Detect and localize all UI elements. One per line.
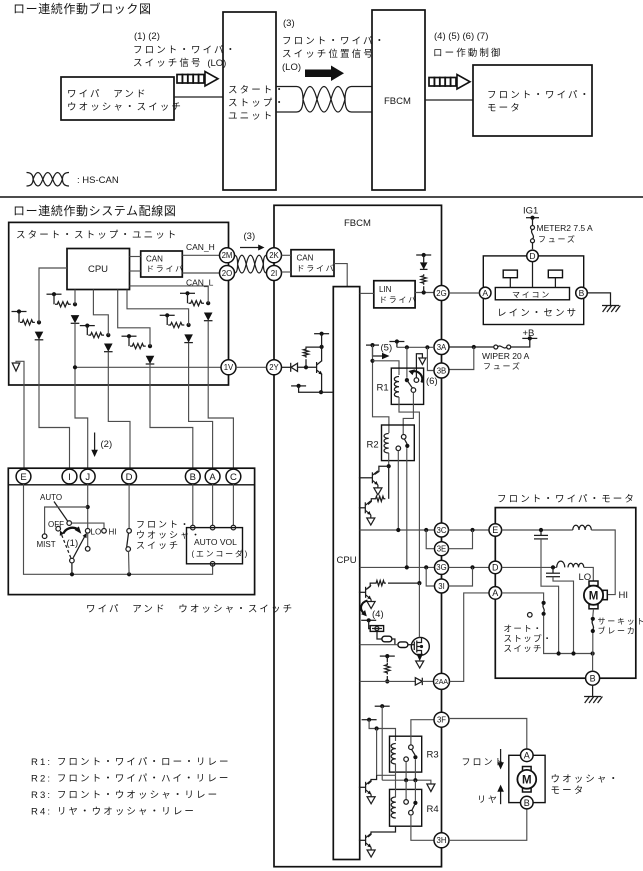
contact: OFF [56, 526, 61, 531]
connector B (motor) [586, 671, 600, 685]
label (4)(5)(6)(7) low operation control [433, 31, 503, 59]
connector 2O [220, 266, 235, 281]
connector 2K [267, 248, 282, 263]
relay R1 NO contact [411, 388, 416, 393]
motif B: resistor R-b, diode D-b (CPU pin to J) [47, 290, 80, 324]
svg-text:AUTO VOL: AUTO VOL [194, 537, 237, 547]
relay R1 fixed contact (to marker) [414, 378, 419, 383]
svg-text:CAN_H: CAN_H [186, 242, 215, 252]
CPU U1 (start-stop unit) [67, 249, 130, 290]
wire: 3F to washer A [449, 719, 527, 750]
digital signal arrow (4)-(7) [429, 75, 470, 90]
sensor element right [548, 270, 562, 287]
switch arm dashed (to OFF) with arrowhead [60, 531, 71, 558]
connector D (motor) [489, 561, 502, 574]
wire: A to auto-stop switch [502, 593, 544, 601]
contact: washer top [127, 529, 132, 534]
wire: R3 NC to rail [405, 762, 407, 781]
relay R2 NC contact [396, 446, 401, 451]
svg-text:HI: HI [619, 590, 629, 601]
svg-text:サーキット・: サーキット・ [598, 617, 643, 626]
svg-text:2Y: 2Y [269, 363, 279, 372]
svg-text:D: D [529, 251, 535, 261]
wire: 3H to washer B [449, 809, 527, 840]
wire: R4 coil riser inside [395, 775, 397, 797]
terminal: encoder C [231, 525, 236, 530]
svg-text:ロー作動制御: ロー作動制御 [433, 47, 503, 59]
contact: AUTO [67, 521, 72, 526]
relay R2 box [367, 425, 415, 461]
relay R3 contact: common [409, 745, 414, 750]
output marker (6) open triangle with stem [416, 354, 426, 378]
wire: auto-stop to motor common rail [544, 616, 595, 656]
wire: junction to R1 common [406, 347, 408, 378]
connector 3G [435, 560, 449, 574]
wire: motif C diode to connector D [108, 352, 130, 469]
block: wiper and washer switch [61, 77, 183, 120]
svg-text:CAN: CAN [146, 255, 163, 264]
power node IG1 [523, 206, 539, 220]
svg-text:D: D [126, 472, 133, 483]
digital signal arrow (1)(2) [177, 72, 218, 87]
box: FBCM [274, 205, 442, 866]
2Y input: base resistor R-y vertical [303, 345, 323, 368]
wire: R2 coil bottom to driver node [387, 453, 391, 468]
svg-text:(1): (1) [67, 538, 79, 549]
legend: HS-CAN twisted pair symbol [27, 173, 119, 187]
label: front washer switch [136, 520, 202, 551]
solid arrow (3) [305, 66, 344, 82]
svg-text:ロー連続作動システム配線図: ロー連続作動システム配線図 [13, 203, 176, 218]
svg-text:M: M [589, 591, 599, 603]
wire: CAN driver to CPU [334, 264, 347, 287]
R4 driver transistor Q6 [359, 826, 396, 857]
svg-text:I: I [68, 472, 71, 483]
relay R3 box [390, 736, 439, 772]
relay R2 coil [384, 434, 389, 454]
wire: 3G net jog to 3I [426, 567, 434, 586]
svg-text:2I: 2I [271, 269, 278, 278]
MOSFET Q4 (in circle) [408, 637, 429, 655]
wire: AUTO position lead [54, 502, 68, 522]
relay R3 NC contact [404, 757, 409, 762]
2Y input: diode D-y (points left) [282, 363, 317, 372]
buffer gate 2 [392, 639, 408, 648]
wire: 3C to motor E with 3E jog [449, 528, 489, 549]
wire: motif D diode to connector B [150, 364, 193, 469]
wire: J node to MIST contact [45, 507, 88, 534]
connector B (rain sensor) [576, 287, 588, 299]
diode D-aa (points right) [415, 678, 433, 685]
svg-text:: HS-CAN: : HS-CAN [77, 175, 119, 186]
svg-text:2M: 2M [222, 251, 233, 260]
connector 3F [434, 712, 449, 727]
svg-text:3B: 3B [437, 366, 447, 375]
wire: B riser to encoder [192, 484, 194, 526]
wire: rail to motor B [592, 654, 594, 672]
wire: E riser and switch common rail [24, 484, 213, 577]
svg-text:ウオッシャ・: ウオッシャ・ [136, 530, 202, 540]
capacitor C2 (D line) [546, 567, 574, 653]
connector 3B [434, 363, 449, 378]
connector 1V [221, 360, 236, 375]
svg-text:(2): (2) [101, 439, 113, 450]
wire: junction down to R4 coil riser [377, 729, 396, 776]
svg-text:AUTO: AUTO [40, 493, 62, 502]
svg-text:E: E [20, 472, 26, 483]
svg-text:2K: 2K [269, 251, 279, 260]
connector B (switch) [185, 469, 200, 484]
CAN driver IC (start-stop unit) [141, 251, 185, 277]
connector D (rain sensor) [527, 250, 539, 262]
relay R1 box [377, 368, 424, 404]
wire: FBCM to front wiper motor [425, 99, 473, 101]
svg-text:R1: R1 [377, 383, 389, 394]
net: 3C wire [360, 528, 435, 532]
motor M2 (washer) [517, 767, 536, 793]
connector E (motor) [489, 524, 502, 537]
connector 3A [434, 340, 449, 355]
supply stub 1 (R3/R4 area) [375, 705, 390, 707]
block: start-stop unit [223, 12, 286, 190]
net: 2AA wire from CPU [360, 680, 416, 682]
wire: R2 moving contact down to 3G net [406, 448, 408, 567]
svg-text:ウオッシャ・スイッチ: ウオッシャ・スイッチ [67, 102, 183, 113]
connector 2G [434, 286, 449, 301]
connector 2M [220, 248, 235, 263]
wire: A riser to encoder [212, 484, 214, 526]
connector 2I [267, 266, 282, 281]
svg-text:MIST: MIST [37, 540, 56, 549]
wire: stub2 to R3 coil riser [369, 720, 395, 741]
wire: motif B diode down to 1V node and connector J [75, 323, 88, 469]
connector 3H [434, 833, 449, 848]
terminal: encoder bottom [210, 562, 215, 567]
wire: C riser to encoder [232, 484, 234, 526]
wire: R4 lower contact to 3H [411, 815, 434, 840]
svg-text:レイン・センサ: レイン・センサ [497, 308, 578, 319]
svg-text:フューズ: フューズ [538, 234, 577, 244]
svg-text:B: B [524, 798, 530, 808]
CAN driver IC (FBCM) [291, 250, 335, 277]
wire: stub1 down to contact rail [381, 706, 383, 780]
supply stub for 3A wire [389, 339, 404, 347]
wire: CPU to MOSFET gate [360, 644, 398, 646]
svg-text:A: A [492, 588, 498, 598]
box: wiper and washer switch assembly [8, 468, 254, 594]
relay R4 moving contact dot (from rail) [413, 780, 417, 805]
svg-text:(3): (3) [283, 18, 295, 29]
power node +B [522, 328, 537, 341]
relay R4 coil [391, 797, 396, 818]
R3 driver transistor Q5 [359, 775, 377, 804]
svg-text:(3): (3) [244, 231, 256, 242]
relay R4 contact arm [412, 805, 415, 811]
wire: 3G to motor D with 3I jog [449, 565, 489, 586]
label: auto stop switch [504, 624, 553, 654]
wire: 1V to 2Y [236, 366, 267, 368]
ground: rain sensor B [587, 293, 620, 312]
wire: washer switch to rail [128, 551, 131, 574]
wire: 2K to CAN driver [282, 254, 292, 256]
svg-text:ドライバ: ドライバ [297, 264, 336, 273]
wire: junction to 3B [427, 347, 433, 370]
svg-text:D: D [492, 563, 499, 573]
svg-text:R4: R4 [427, 804, 439, 815]
wire: J riser to LO contact [86, 484, 90, 529]
wire: 2AA to motor A [450, 593, 489, 682]
wire: fuse node to 3B [449, 347, 474, 370]
pull-up at 2G: supply stub, diode D-g, resistor R-g [416, 253, 431, 293]
svg-text:FBCM: FBCM [344, 218, 371, 229]
svg-text:(6): (6) [426, 376, 438, 387]
connector 3C [435, 523, 449, 537]
contact: MIST [42, 534, 47, 539]
wire: E to HI path [502, 528, 573, 532]
label signals (1)(2) front wiper switch signal (LO) [133, 31, 237, 69]
supply stub (5) signal tap [366, 343, 392, 354]
connector I (switch) [62, 469, 77, 484]
svg-text:M: M [522, 775, 532, 787]
relay R1 coil [394, 377, 399, 398]
front washer switch: D riser [128, 484, 130, 529]
svg-text:フロント・ワイパ・: フロント・ワイパ・ [487, 90, 591, 101]
auto-stop switch contacts [528, 601, 546, 617]
AUTO VOL encoder U2 [187, 528, 250, 564]
signal arrow (3) over twisted pair [240, 231, 265, 251]
twisted pair 2M-2O to 2K-2I [235, 255, 267, 273]
capacitor C1 (E line) [534, 530, 559, 654]
wire: common contact to rail [71, 563, 73, 574]
label front direction [462, 749, 506, 770]
svg-text:HI: HI [109, 528, 117, 537]
label (3) front wiper switch position signal (LO) [282, 18, 386, 73]
svg-text:C: C [230, 472, 237, 483]
2Y input: emitter rail to CPU with stub [291, 384, 333, 392]
motor M1 (wiper) with terminals [584, 581, 607, 609]
signal arrow (2) to switch [91, 433, 112, 458]
contact: LO [85, 529, 90, 534]
twisted pair: unit to FBCM (HS-CAN) [276, 87, 372, 113]
wire: AUTO contact to HI contact [72, 523, 105, 528]
svg-text:リヤ: リヤ [477, 795, 499, 805]
svg-text:ドライバ: ドライバ [379, 296, 418, 305]
svg-text:R3: R3 [427, 750, 439, 761]
transistor Q-y (2Y input) [317, 347, 324, 394]
separator line [0, 196, 643, 198]
choke coil L2 small (LO) [557, 561, 565, 567]
wire: 2I to CAN driver [282, 271, 292, 273]
svg-text:3G: 3G [436, 563, 446, 572]
terminal: encoder A [210, 525, 215, 530]
svg-text:ウオッシャ・: ウオッシャ・ [551, 774, 621, 785]
wire: R1 coil bottom long drop to transistor node [399, 397, 419, 583]
wire: R2 NC contact down to 3C net [397, 451, 399, 530]
svg-text:B: B [590, 673, 596, 683]
connector A (washer) [521, 749, 534, 762]
oscillator block [370, 626, 383, 632]
ground terminal (open triangle) inside unit [12, 361, 24, 469]
ground: motor B [584, 685, 602, 703]
2Y input: pull-up stub [314, 332, 329, 347]
wire: switch to start-stop unit [174, 96, 223, 98]
svg-text:ブレーカ: ブレーカ [598, 626, 637, 636]
wire: CAN driver to 2M [182, 254, 219, 256]
svg-text:ストップ・: ストップ・ [504, 634, 553, 644]
ground marker below Q3 [367, 602, 375, 609]
svg-text:ユニット: ユニット [228, 111, 274, 122]
wire: D to microcomputer [532, 262, 534, 288]
svg-text:CPU: CPU [88, 264, 108, 275]
relay R3 contact arm [412, 749, 416, 755]
driver pair: resistor R-q to transistor Q2 [359, 466, 389, 525]
connector B (washer) [521, 796, 534, 809]
wire: CAN driver to 2O [182, 272, 219, 274]
svg-text:2AA: 2AA [435, 679, 449, 686]
connector 3E [435, 542, 449, 556]
wire: R3 moving contact to rail [414, 759, 416, 780]
rotation arrow (4) [361, 601, 384, 621]
wire: motif A diode to connector I (via unit pin) [39, 340, 70, 469]
contact: washer bottom [126, 547, 131, 552]
svg-text:CPU: CPU [337, 555, 357, 566]
svg-text:R4: リヤ・ウオッシャ・リレー: R4: リヤ・ウオッシャ・リレー [31, 807, 196, 818]
wire: to 3A with junctions [397, 345, 434, 349]
relay R1 contact arm [407, 380, 413, 388]
svg-text:スイッチ位置信号: スイッチ位置信号 [282, 48, 375, 60]
svg-text:B: B [190, 472, 196, 483]
wire: motif F diode to connector C [208, 321, 233, 469]
connector D (switch) [122, 469, 137, 484]
svg-text:IG1: IG1 [523, 206, 538, 217]
svg-text:(4): (4) [372, 609, 384, 620]
motif D: resistor R-d, diode D-d (CPU pin to B) [118, 290, 155, 365]
legend: relay definitions R1-R4 [31, 757, 231, 818]
wire: 2G to rain sensor A [449, 292, 479, 294]
connector A (motor) [489, 587, 502, 600]
connector A (switch) [205, 469, 220, 484]
svg-text:3A: 3A [437, 343, 447, 352]
pull resistor to 2AA wire with stub [380, 654, 395, 684]
net: 3G wire [360, 565, 435, 569]
svg-text:スタート・ストップ・ユニット: スタート・ストップ・ユニット [16, 230, 178, 241]
CPU U3 (FBCM) [333, 287, 359, 860]
box: rain sensor [483, 256, 583, 325]
svg-text:(LO): (LO) [282, 62, 301, 73]
svg-text:3E: 3E [437, 545, 447, 554]
relay R2 contact: common [401, 435, 406, 440]
relay R3 moving contact dot [413, 755, 417, 759]
signal arrow (5) [373, 347, 390, 359]
wire: R1 NO contact to R2 common [403, 392, 413, 434]
svg-text:スイッチ: スイッチ [504, 644, 543, 654]
svg-text:A: A [209, 472, 216, 483]
rotation arrow (1) [64, 526, 82, 549]
wire: 3C net jog to 3E [426, 530, 434, 549]
oscillator feed stub [361, 618, 376, 628]
svg-text:2O: 2O [222, 269, 232, 278]
connector 2AA [434, 673, 450, 689]
label: washer motor [551, 774, 621, 797]
svg-text:3H: 3H [437, 836, 447, 845]
svg-text:スイッチ: スイッチ [136, 541, 180, 551]
svg-text:1V: 1V [224, 363, 234, 372]
wire: LO contact to lower contact [87, 533, 89, 546]
relay R4 lower contact [409, 810, 414, 815]
relay R4 box [390, 789, 439, 826]
contact: HI [102, 529, 107, 534]
svg-text:ドライバ: ドライバ [146, 265, 185, 274]
svg-text:METER2 7.5 A: METER2 7.5 A [537, 223, 594, 233]
svg-text:フューズ: フューズ [483, 361, 522, 371]
svg-text:モータ: モータ [551, 786, 586, 797]
switch arm common contact [70, 558, 75, 563]
wire: 3F to R3 common contact [411, 720, 434, 745]
svg-text:CAN: CAN [297, 254, 314, 263]
svg-text:LO: LO [91, 528, 102, 537]
block: front wiper motor [473, 65, 592, 136]
connector C (switch) [226, 469, 241, 484]
box: start-stop unit (wiring) [9, 222, 229, 385]
motif E: resistor R-e, diode D-e (CPU pin to A) [127, 290, 193, 343]
svg-text:R1: フロント・ワイパ・ロー・リレー: R1: フロント・ワイパ・ロー・リレー [31, 757, 231, 768]
svg-text:(4) (5) (6) (7): (4) (5) (6) (7) [434, 31, 488, 42]
svg-text:FBCM: FBCM [384, 96, 411, 107]
microcomputer block (rain sensor) [495, 288, 569, 300]
svg-text:A: A [482, 288, 488, 298]
wire: stub to R1 coil and R2 coil feed [370, 345, 399, 433]
svg-text:モータ: モータ [487, 103, 522, 114]
svg-text:(エンコーダ): (エンコーダ) [192, 549, 250, 559]
contact: below LO [85, 547, 90, 552]
svg-text:スイッチ信号 (LO): スイッチ信号 (LO) [133, 57, 226, 69]
label rear direction [477, 785, 504, 805]
relay R1 contact: common pivot [405, 378, 409, 382]
connector 2Y [267, 360, 282, 375]
buffer gate 1 [377, 631, 392, 641]
svg-text:R2: フロント・ワイパ・ハイ・リレー: R2: フロント・ワイパ・ハイ・リレー [31, 774, 230, 785]
washer switch blade [127, 533, 129, 547]
LIN driver IC [374, 281, 418, 308]
connector J (switch) [80, 469, 95, 484]
svg-text:ロー連続作動ブロック図: ロー連続作動ブロック図 [13, 1, 152, 16]
wire: MOSFET drain up (R1 coil node) [418, 583, 420, 637]
svg-text:WIPER 20 A: WIPER 20 A [482, 351, 530, 361]
wire: CPU to CAN driver (2 lines) [130, 256, 141, 258]
MOSFET source arrow to ground marker [416, 654, 424, 668]
wire: CPU to LIN driver [360, 292, 374, 294]
wire: motif E diode to connector A [189, 343, 213, 469]
choke coil L3 (LO) [568, 563, 584, 567]
svg-text:J: J [85, 472, 90, 483]
node 1V wire inside unit [73, 365, 221, 369]
wire: LIN driver to 2G [415, 290, 434, 294]
R1 driver transistor Q3 with base resistor [359, 581, 422, 602]
connector 3I [435, 579, 449, 593]
svg-text:R3: フロント・ウオッシャ・リレー: R3: フロント・ウオッシャ・リレー [31, 790, 219, 801]
fuse METER2 7.5A [531, 218, 594, 250]
block: FBCM [372, 10, 425, 190]
wire: R3 coil bottom through box to R4 coil top [395, 764, 397, 775]
svg-text:2G: 2G [436, 289, 446, 298]
relay R4 contact: upper (from rail) [404, 780, 409, 804]
svg-text:3C: 3C [437, 526, 447, 535]
relay R2 moving contact dot [405, 444, 409, 448]
supply stub 2 (coil feed) [362, 719, 377, 721]
rotation arrow (6) [409, 369, 438, 387]
motif F: resistor R-f, diode D-f (CPU pin to C) [130, 286, 213, 321]
choke coil L1 (HI) [573, 525, 592, 530]
